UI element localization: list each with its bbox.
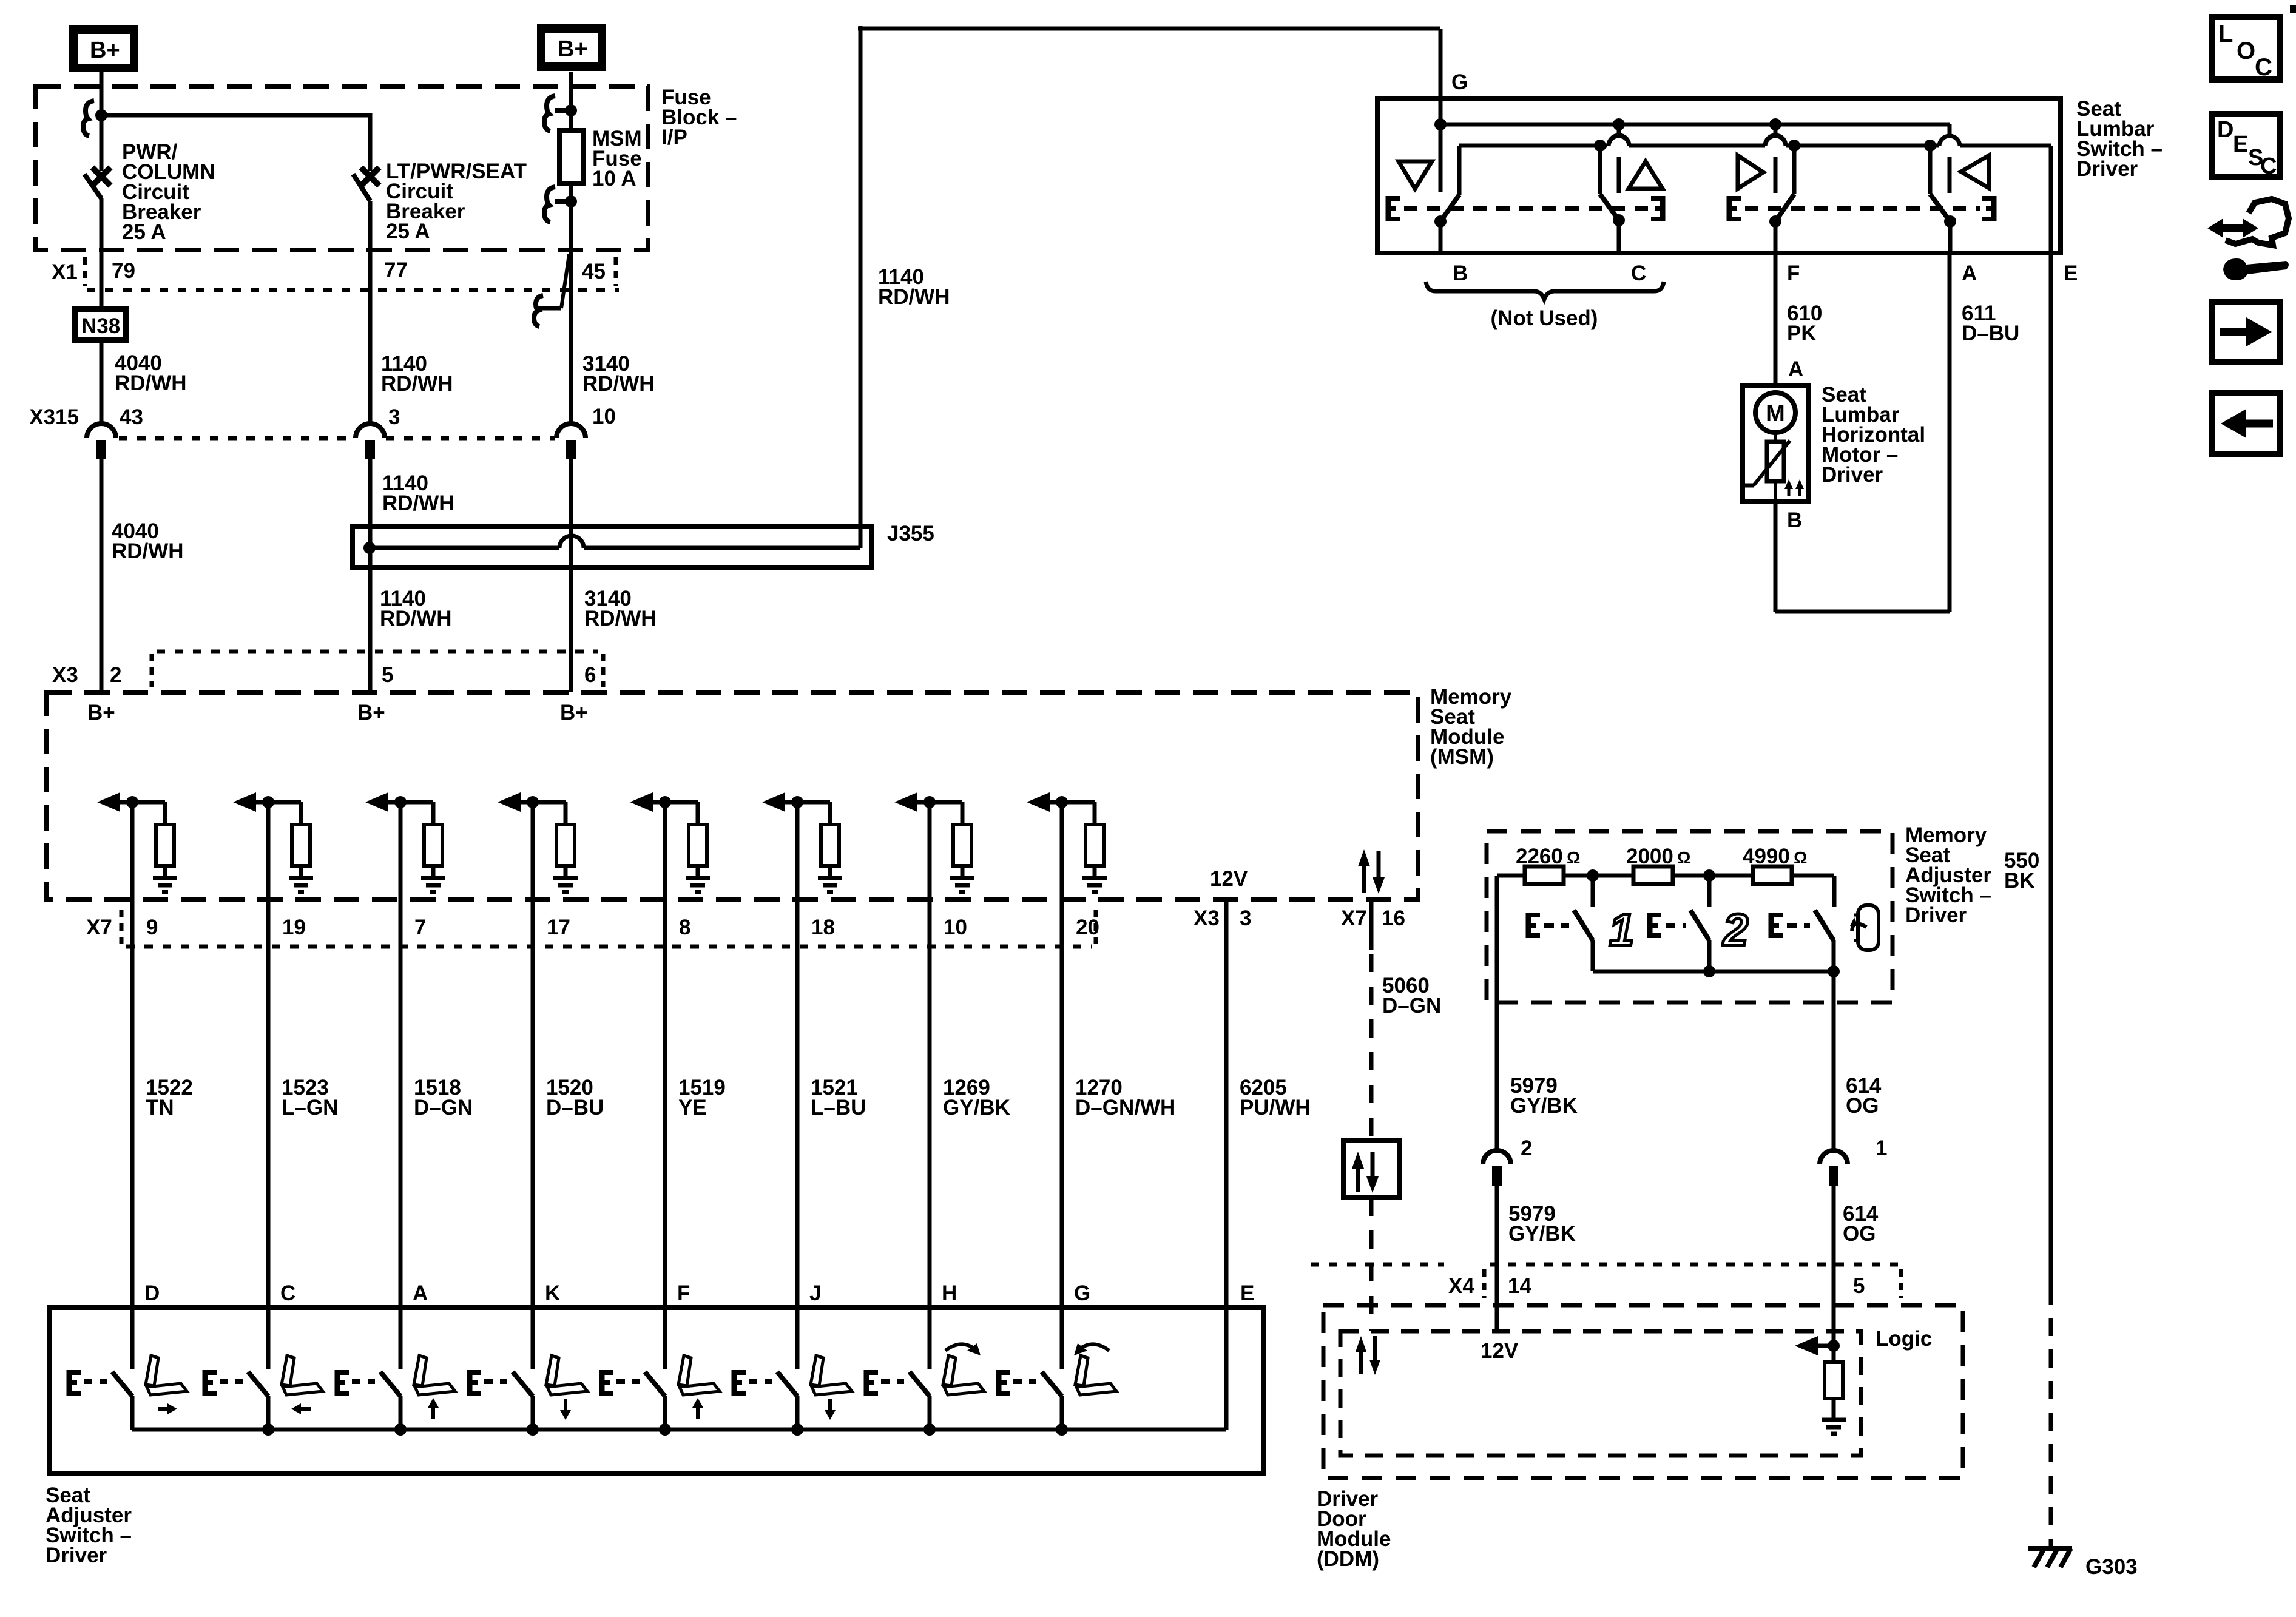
svg-text:9: 9 xyxy=(146,916,158,939)
wire 6205 into box (pin E) xyxy=(1226,1281,1254,1430)
svg-text:PK: PK xyxy=(1787,322,1817,345)
seat icon F xyxy=(678,1355,720,1395)
wire 1140 RD/WH mid label xyxy=(382,471,454,515)
svg-text:X4: X4 xyxy=(1448,1274,1474,1298)
svg-text:16: 16 xyxy=(1382,906,1405,930)
svg-text:RD/WH: RD/WH xyxy=(112,539,184,563)
label Logic xyxy=(1876,1327,1932,1351)
MSM output driver 8 xyxy=(1027,792,1107,892)
svg-text:B: B xyxy=(1453,262,1468,285)
seat switch A xyxy=(380,1372,400,1430)
pin 8 xyxy=(679,916,690,939)
direction arrow left xyxy=(291,1403,311,1414)
label Seat Adjuster Switch - Driver xyxy=(46,1484,132,1567)
wire B+2 to MSM fuse xyxy=(569,72,573,133)
direction arrow down xyxy=(560,1399,571,1420)
svg-text:C: C xyxy=(280,1281,295,1305)
DDM up/down symbol xyxy=(1356,1336,1380,1375)
svg-text:O: O xyxy=(2237,38,2255,64)
label 6205 PU/WH xyxy=(1240,1076,1311,1119)
actuator E K xyxy=(468,1370,507,1396)
wire label 1270 D–GN/WH xyxy=(1075,1076,1175,1119)
seat switch G xyxy=(1042,1372,1062,1430)
MSM output driver 5 xyxy=(630,792,710,892)
seat icon K xyxy=(546,1355,587,1395)
motor pin A xyxy=(1788,357,1803,381)
pin F xyxy=(677,1281,690,1305)
svg-text:(MSM): (MSM) xyxy=(1430,745,1494,769)
svg-text:20: 20 xyxy=(1076,916,1099,939)
wire jumper to breaker 2 xyxy=(101,113,370,118)
svg-text:14: 14 xyxy=(1508,1274,1531,1298)
svg-text:L–GN: L–GN xyxy=(282,1096,338,1119)
lumbar switch contact C (up) xyxy=(1609,124,1629,193)
switch blade B xyxy=(1434,195,1459,253)
label (Not Used) xyxy=(1491,306,1598,330)
svg-text:E: E xyxy=(2233,132,2248,157)
svg-text:I/P: I/P xyxy=(661,126,687,149)
seat switch D xyxy=(112,1372,132,1430)
svg-text:A: A xyxy=(1788,357,1803,381)
pin 14 xyxy=(1508,1274,1531,1298)
svg-text:Ω: Ω xyxy=(1567,848,1580,867)
wire 5060 D-GN dashed xyxy=(1369,900,1374,1138)
rest leg F xyxy=(1792,146,1797,194)
wire 5979 GY/BK xyxy=(1495,876,1499,1150)
wire B+1 to circuit breaker 1 xyxy=(100,72,104,171)
svg-text:X315: X315 xyxy=(29,405,79,429)
direction arrow ccw xyxy=(1074,1343,1109,1355)
wire MSM pin 18 to seat switch xyxy=(795,802,800,1369)
switch common bus xyxy=(132,1423,1226,1436)
svg-text:45: 45 xyxy=(582,260,606,283)
label 12V (MSM) xyxy=(1210,867,1248,891)
symbol left triangle xyxy=(1961,155,1989,188)
svg-text:(DDM): (DDM) xyxy=(1317,1547,1379,1571)
svg-text:G303: G303 xyxy=(2085,1555,2138,1579)
numeral 2 xyxy=(1722,905,1748,955)
pin K xyxy=(545,1281,560,1305)
resistor R1 2260 ohm xyxy=(1525,866,1564,884)
pin 19 xyxy=(282,916,306,939)
wire 1140 RD/WH lower label xyxy=(380,587,452,630)
seat switch K xyxy=(513,1372,533,1430)
svg-text:43: 43 xyxy=(120,405,143,429)
label Memory Seat Module (MSM) xyxy=(1430,685,1512,769)
wire MSM pin 17 to seat switch xyxy=(531,802,535,1369)
MSM output driver 6 xyxy=(762,792,842,892)
pin C xyxy=(1631,262,1646,285)
svg-text:TN: TN xyxy=(146,1096,174,1119)
symbol up triangle xyxy=(1629,161,1663,189)
wire MSM fuse to X1-45 xyxy=(569,183,573,424)
svg-text:X1: X1 xyxy=(52,260,78,284)
circuit breaker 2 LT/PWR/SEAT 25A xyxy=(353,167,379,424)
connector X315 pin 43 xyxy=(87,424,116,459)
svg-text:7: 7 xyxy=(414,916,426,939)
wire 614 OG xyxy=(1832,971,1836,1150)
label 611 D-BU xyxy=(1962,302,2019,345)
pin 79 xyxy=(112,259,135,283)
main 1140 label xyxy=(878,265,950,309)
seat icon J xyxy=(811,1355,852,1395)
wire 5979 to DDM xyxy=(1495,1173,1499,1331)
svg-text:25 A: 25 A xyxy=(386,220,430,243)
svg-text:X7: X7 xyxy=(86,916,112,939)
svg-text:12V: 12V xyxy=(1210,867,1248,891)
switch blade C xyxy=(1600,194,1625,253)
actuator E A xyxy=(336,1370,375,1396)
wire 3140 RD/WH upper label xyxy=(582,352,655,396)
pin 5 xyxy=(382,663,393,687)
page mark xyxy=(2290,5,2296,13)
pin 2 xyxy=(110,663,121,687)
seat adjuster switch box xyxy=(50,1308,1264,1473)
wire drop to switch G xyxy=(1439,29,1443,124)
pin 10 xyxy=(944,916,967,939)
svg-text:OG: OG xyxy=(1843,1222,1876,1246)
svg-text:Driver: Driver xyxy=(46,1544,107,1567)
ground G303 xyxy=(2028,1548,2072,1567)
svg-text:RD/WH: RD/WH xyxy=(381,372,453,396)
chain junction dots xyxy=(1587,869,1715,882)
seat icon A xyxy=(414,1355,455,1395)
wire 3140 RD/WH to MSM xyxy=(569,447,573,692)
pin 77 xyxy=(384,258,408,282)
circuit breaker 1 PWR/COLUMN 25A xyxy=(84,167,110,306)
svg-text:K: K xyxy=(545,1281,560,1305)
node G xyxy=(1451,70,1468,94)
wire 6205 PU/WH xyxy=(1224,900,1229,1308)
actuator E bracket pair 2 xyxy=(1728,196,1995,221)
label 4990 ohm xyxy=(1743,845,1807,868)
svg-text:YE: YE xyxy=(678,1096,707,1119)
pin 43 xyxy=(120,405,143,429)
svg-text:BK: BK xyxy=(2004,869,2035,893)
svg-text:79: 79 xyxy=(112,259,135,283)
direction arrow cw xyxy=(945,1343,981,1355)
lumbar switch feed bus xyxy=(1440,124,1960,193)
label 2000 ohm xyxy=(1626,845,1690,868)
clip terminal at B+1 junction xyxy=(83,101,94,136)
seat lumbar switch box U-lumbar xyxy=(1377,98,2061,253)
actuator E dashes memory switch xyxy=(1527,913,1569,938)
wire 5060 to DDM xyxy=(1369,1198,1374,1331)
wire label 1519 YE xyxy=(678,1076,726,1119)
label MSM Fuse 10 A xyxy=(592,127,642,191)
svg-text:PU/WH: PU/WH xyxy=(1240,1096,1311,1119)
lumbar switch contact B (down) xyxy=(1439,124,1443,192)
label LT/PWR/SEAT Circuit Breaker 25 A xyxy=(386,160,527,243)
pin 20 xyxy=(1076,916,1099,939)
pin 45 xyxy=(582,260,606,283)
svg-text:Driver: Driver xyxy=(1905,903,1967,927)
resistor R2 2000 ohm xyxy=(1633,866,1673,884)
lumbar switch rest bus xyxy=(1459,135,2051,253)
label Driver Door Module (DDM) xyxy=(1317,1487,1391,1571)
motor symbol M xyxy=(1755,393,1795,433)
svg-text:L–BU: L–BU xyxy=(811,1096,866,1119)
svg-text:E: E xyxy=(1240,1281,1254,1305)
svg-text:Ω: Ω xyxy=(1794,848,1807,867)
svg-text:10: 10 xyxy=(592,405,616,428)
svg-text:5: 5 xyxy=(1853,1274,1865,1298)
splice N38 xyxy=(75,309,126,340)
node B+ labels xyxy=(87,701,588,724)
pin J xyxy=(809,1281,821,1305)
icon prev arrow xyxy=(2212,393,2280,454)
lumbar switch contact F (forward) xyxy=(1765,124,1786,193)
memory switch bottom bus xyxy=(1593,965,1840,977)
wire MSM pin 8 to seat switch xyxy=(663,802,667,1369)
wire MSM pin 19 to seat switch xyxy=(266,802,271,1369)
svg-text:F: F xyxy=(677,1281,690,1305)
junction node B+1 xyxy=(95,109,107,121)
wire label 1522 TN xyxy=(146,1076,193,1119)
label 614 OG upper xyxy=(1846,1074,1882,1118)
motor pin B xyxy=(1787,508,1802,532)
svg-text:8: 8 xyxy=(679,916,690,939)
svg-text:A: A xyxy=(1962,262,1977,285)
wire 4040 RD/WH upper label xyxy=(115,351,187,395)
DDM logic arrow xyxy=(1795,1336,1834,1355)
actuator E H xyxy=(865,1370,904,1396)
actuator E D xyxy=(68,1370,107,1396)
svg-text:M: M xyxy=(1766,401,1785,427)
svg-text:D: D xyxy=(144,1281,160,1305)
svg-text:B: B xyxy=(1787,508,1802,532)
svg-text:B+: B+ xyxy=(90,38,120,63)
wire 610 PK xyxy=(1774,253,1778,386)
symbol right triangle xyxy=(1738,155,1763,189)
pin G xyxy=(1074,1281,1090,1305)
driver door module dashed box xyxy=(1323,1305,1963,1478)
svg-text:Driver: Driver xyxy=(1822,463,1883,487)
svg-text:RD/WH: RD/WH xyxy=(584,607,657,630)
wire 1140 RD/WH to J355 xyxy=(368,447,373,692)
wire MSM pin 10 to seat switch xyxy=(928,802,932,1369)
svg-text:18: 18 xyxy=(811,916,835,939)
MSM output driver 7 xyxy=(894,792,974,892)
pin H xyxy=(942,1281,957,1305)
pin 5 xyxy=(1853,1274,1865,1298)
svg-text:2: 2 xyxy=(1521,1136,1532,1160)
icon next arrow xyxy=(2212,302,2280,362)
resistor R3 4990 ohm xyxy=(1753,866,1792,884)
pin 7 xyxy=(414,916,426,939)
label 550 BK xyxy=(2004,849,2039,893)
svg-text:3: 3 xyxy=(1240,906,1251,930)
wire label 1523 L–GN xyxy=(282,1076,338,1119)
wire MSM pin 7 to seat switch xyxy=(399,802,403,1369)
seat switch F xyxy=(645,1372,665,1430)
direction arrow up xyxy=(692,1398,703,1419)
connector X7 pin 16 xyxy=(1341,906,1405,930)
svg-text:C: C xyxy=(2260,154,2277,179)
icon DESC xyxy=(2212,114,2280,179)
fuse clip bottom xyxy=(544,187,577,222)
svg-text:GY/BK: GY/BK xyxy=(1510,1094,1578,1118)
svg-text:6: 6 xyxy=(584,663,596,687)
svg-text:3: 3 xyxy=(388,405,400,429)
svg-text:F: F xyxy=(1787,262,1800,285)
svg-text:RD/WH: RD/WH xyxy=(878,285,950,309)
svg-text:GY/BK: GY/BK xyxy=(943,1096,1010,1119)
actuator E F xyxy=(601,1370,640,1396)
svg-text:19: 19 xyxy=(282,916,306,939)
connector X4 row xyxy=(1311,1264,1901,1298)
svg-text:5: 5 xyxy=(382,663,393,687)
MSM fuse 10A xyxy=(559,130,584,183)
wire 614 to DDM xyxy=(1832,1173,1836,1346)
label 5979 GY/BK lower xyxy=(1508,1202,1576,1246)
DDM pulldown resistor xyxy=(1822,1346,1846,1434)
MSM memory up/down symbol xyxy=(1358,849,1385,894)
pin D xyxy=(144,1281,160,1305)
label G303 xyxy=(2085,1555,2138,1579)
rest leg B xyxy=(1457,146,1462,195)
wire MSM pin 20 to seat switch xyxy=(1060,802,1064,1369)
label Seat Lumbar Horizontal Motor - Driver xyxy=(1822,383,1925,487)
symbol down triangle xyxy=(1399,161,1432,189)
MSM output driver 4 xyxy=(498,792,578,892)
svg-text:2: 2 xyxy=(1722,905,1748,955)
fuse clip top xyxy=(544,96,577,131)
MSM output driver 3 xyxy=(365,792,445,892)
pin A xyxy=(413,1281,428,1305)
svg-text:B+: B+ xyxy=(87,701,115,724)
connector X3 pin 3 xyxy=(1194,906,1251,930)
svg-text:C: C xyxy=(2255,54,2272,81)
svg-text:2260: 2260 xyxy=(1516,845,1563,868)
numeral 1 xyxy=(1609,905,1634,955)
svg-text:OG: OG xyxy=(1846,1094,1879,1118)
wire 1140 RD/WH upper label xyxy=(381,352,453,396)
label 5060 D-GN xyxy=(1382,974,1441,1018)
seat icon G xyxy=(1075,1355,1116,1395)
memory switch position 1 xyxy=(1574,876,1593,971)
connector X1 row xyxy=(52,257,619,290)
label Memory Seat Adjuster Switch - Driver xyxy=(1905,823,1991,927)
pin 9 xyxy=(146,916,158,939)
icon tool/part xyxy=(2207,199,2289,280)
svg-text:J: J xyxy=(809,1281,821,1305)
memory seat adjuster switch dashed box xyxy=(1487,831,1893,1002)
label 12V (DDM) xyxy=(1481,1339,1519,1363)
svg-text:A: A xyxy=(413,1281,428,1305)
connector X315 pin 3 xyxy=(356,405,400,459)
switch blade A xyxy=(1930,194,1956,253)
pin E xyxy=(2064,262,2078,285)
terminal lead at X1 pin 45 xyxy=(534,254,569,326)
resistor chain bus xyxy=(1497,876,1834,907)
memory switch position 2 xyxy=(1690,876,1709,971)
pin C xyxy=(280,1281,295,1305)
svg-text:4990: 4990 xyxy=(1743,845,1790,868)
direction arrow down xyxy=(825,1399,836,1420)
inline connector pin 1 xyxy=(1820,1136,1887,1186)
actuator E bracket pair 1 xyxy=(1387,196,1664,221)
svg-text:25 A: 25 A xyxy=(122,220,166,244)
svg-text:D–GN/WH: D–GN/WH xyxy=(1075,1096,1175,1119)
memory up/down box on 5060 xyxy=(1343,1141,1400,1198)
wire motor B return xyxy=(1775,253,1950,612)
DDM logic dashed box xyxy=(1340,1331,1861,1456)
rest leg C xyxy=(1598,146,1602,194)
wire 550 BK xyxy=(2049,253,2053,1546)
svg-text:1: 1 xyxy=(1609,905,1634,955)
inline connector pin 2 xyxy=(1483,1136,1532,1186)
svg-text:2000: 2000 xyxy=(1626,845,1673,868)
seat icon D xyxy=(146,1355,187,1395)
splice wire J355 xyxy=(363,536,860,554)
bus junction dots xyxy=(1434,118,1936,152)
svg-text:RD/WH: RD/WH xyxy=(582,372,655,396)
svg-text:N38: N38 xyxy=(81,314,120,338)
connector X7 row xyxy=(86,910,1096,947)
pin 6 xyxy=(584,663,596,687)
svg-text:B+: B+ xyxy=(357,701,385,724)
svg-text:G: G xyxy=(1451,70,1468,94)
rest leg A xyxy=(1928,146,1933,194)
svg-text:1: 1 xyxy=(1876,1136,1887,1160)
actuator E G xyxy=(998,1370,1036,1396)
svg-text:Driver: Driver xyxy=(2076,157,2138,181)
svg-text:H: H xyxy=(942,1281,957,1305)
svg-text:Logic: Logic xyxy=(1876,1327,1932,1351)
label 614 OG lower xyxy=(1843,1202,1879,1246)
wire 1140 RD/WH top run xyxy=(858,27,1440,31)
MSM output driver 1 xyxy=(97,792,177,892)
svg-text:77: 77 xyxy=(384,258,408,282)
memory switch position 3 xyxy=(1815,910,1834,971)
svg-text:12V: 12V xyxy=(1481,1339,1519,1363)
svg-text:17: 17 xyxy=(547,916,570,939)
svg-text:D: D xyxy=(2217,117,2234,143)
svg-text:J355: J355 xyxy=(887,522,934,545)
wire label 1521 L–BU xyxy=(811,1076,866,1119)
svg-text:(Not Used): (Not Used) xyxy=(1491,306,1598,330)
svg-text:Ω: Ω xyxy=(1677,848,1690,867)
pin B xyxy=(1453,262,1468,285)
seat icon H xyxy=(943,1355,984,1395)
wire 1140 RD/WH main vertical xyxy=(859,26,863,548)
pin A xyxy=(1962,262,1977,285)
svg-text:D–BU: D–BU xyxy=(1962,322,2019,345)
MSM output driver 2 xyxy=(233,792,313,892)
svg-text:2: 2 xyxy=(110,663,121,687)
actuator E J xyxy=(733,1370,772,1396)
wire N38 to X315 xyxy=(100,343,104,424)
svg-text:E: E xyxy=(2064,262,2078,285)
connector X315 dashed row xyxy=(119,436,555,441)
switch blade F xyxy=(1769,194,1794,253)
wire label 1520 D–BU xyxy=(546,1076,604,1119)
svg-text:X3: X3 xyxy=(1194,906,1220,930)
wire 4040 RD/WH lower label xyxy=(112,519,184,563)
svg-text:B+: B+ xyxy=(560,701,588,724)
wire label 1269 GY/BK xyxy=(943,1076,1010,1119)
seat icon C xyxy=(282,1355,323,1395)
label Fuse Block I/P xyxy=(661,86,737,149)
label X315 xyxy=(29,405,79,429)
svg-text:L: L xyxy=(2218,21,2233,47)
svg-text:D–GN: D–GN xyxy=(1382,994,1441,1018)
wire 4040 RD/WH to MSM xyxy=(100,447,104,692)
pin F xyxy=(1787,262,1800,285)
svg-text:D–GN: D–GN xyxy=(414,1096,473,1119)
seat lumbar horizontal motor M1 xyxy=(1743,386,1808,501)
